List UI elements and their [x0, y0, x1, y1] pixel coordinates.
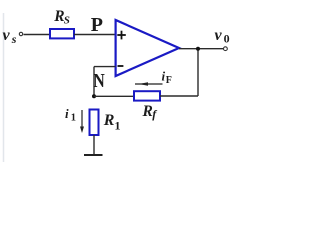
- wire vertical minus input down to node N junction: [93, 67, 95, 97]
- svg-text:S: S: [64, 14, 70, 26]
- ground: [84, 154, 103, 156]
- op-amp minus input sign: [118, 65, 124, 67]
- wire vertical feedback up to output node: [197, 49, 199, 96]
- svg-text:R: R: [142, 103, 153, 120]
- output wire: [179, 48, 224, 50]
- wire N junction to Rf: [94, 95, 134, 97]
- wire R1 bottom to ground: [93, 135, 95, 155]
- svg-text:0: 0: [224, 32, 230, 46]
- label Rf: [142, 103, 158, 121]
- current i1 label: [65, 106, 76, 124]
- svg-text:1: 1: [71, 112, 76, 123]
- current i1 arrow: [80, 110, 84, 133]
- current iF arrow: [135, 82, 163, 86]
- resistor Rf: [134, 91, 160, 100]
- wire N to op-amp minus input: [94, 66, 116, 68]
- node N junction dot: [92, 94, 96, 98]
- svg-text:F: F: [166, 75, 172, 86]
- wire Rf to output branch: [160, 95, 198, 97]
- label RS: [53, 8, 70, 27]
- wire Rs to op-amp + input: [74, 34, 116, 36]
- svg-text:s: s: [11, 32, 17, 46]
- label v0: [215, 27, 230, 46]
- svg-text:i: i: [65, 106, 69, 121]
- wire vs to Rs: [24, 34, 51, 36]
- op-amp plus input sign: [117, 31, 126, 40]
- svg-text:R: R: [103, 112, 115, 129]
- output terminal circle: [224, 47, 228, 51]
- label R1: [103, 112, 121, 133]
- svg-text:N: N: [93, 70, 105, 92]
- input terminal circle: [19, 32, 22, 35]
- output node junction dot: [196, 47, 200, 51]
- svg-text:v: v: [3, 27, 11, 44]
- label vs: [3, 27, 17, 46]
- op-amp U1 triangle: [116, 20, 179, 76]
- current iF label: [162, 69, 172, 87]
- faint left border line: [3, 13, 5, 162]
- svg-text:1: 1: [115, 118, 121, 132]
- resistor RS: [50, 29, 74, 38]
- svg-text:v: v: [215, 27, 223, 44]
- svg-text:P: P: [91, 14, 103, 36]
- resistor R1: [90, 110, 99, 136]
